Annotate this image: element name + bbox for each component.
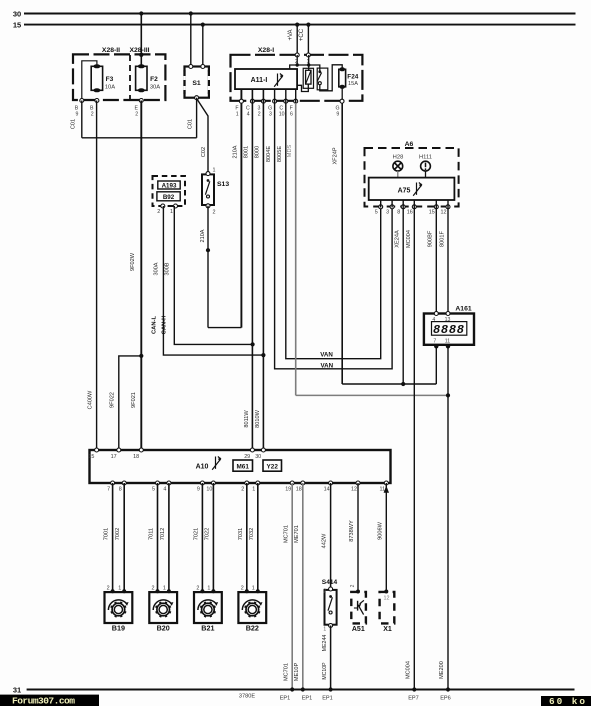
pin bump A75 16 — [412, 205, 416, 209]
wire S414 pin1 to ground EP1 — [330, 626, 332, 690]
wire XF24P horizontal to A161 pin7 — [342, 383, 436, 385]
connector box X28-I — [231, 55, 363, 101]
pin bump A10 bottom 9 — [200, 481, 204, 485]
pin bump X28-I F1 — [239, 99, 243, 103]
svg-text:1: 1 — [170, 209, 173, 215]
unit A6 dashed box — [365, 148, 459, 207]
wire 9F02W fuse F2 E2 down — [140, 101, 142, 356]
wire rail30 to S1 pin left — [190, 14, 192, 67]
svg-text:15: 15 — [13, 21, 21, 30]
svg-text:9F02W: 9F02W — [130, 252, 136, 271]
svg-text:A6: A6 — [405, 141, 414, 148]
wire 7021 A10 to B21 pin2 — [201, 483, 203, 591]
wire 8000 X28-I 32 to A10 pin30 — [262, 89, 264, 450]
svg-text:9F022: 9F022 — [109, 392, 115, 408]
pin bump B9 — [80, 99, 84, 103]
svg-text:X28-II: X28-II — [102, 47, 120, 54]
pin bump A10 bottom 12 — [356, 481, 360, 485]
svg-text:12: 12 — [384, 595, 390, 601]
wire 7002 A10 to B19 pin1 — [123, 483, 125, 591]
svg-text:30: 30 — [255, 454, 261, 460]
wire relay coil return to A11-I — [297, 84, 308, 91]
wire A75 pin5 stub — [380, 200, 382, 208]
power rail 30 wire — [24, 13, 576, 15]
svg-text:XE24A: XE24A — [395, 230, 401, 248]
unit M61 box — [233, 460, 253, 471]
svg-text:14: 14 — [324, 487, 330, 493]
pin bump X28-I C10 — [284, 99, 288, 103]
wire S13 pin2 down — [207, 206, 209, 328]
svg-text:2: 2 — [241, 487, 244, 493]
svg-text:7022: 7022 — [204, 528, 210, 540]
svg-text:VAN: VAN — [320, 352, 333, 359]
pin bump S13 pin2 — [206, 204, 210, 208]
pin bump B20 pin1 — [167, 589, 171, 593]
svg-text:29: 29 — [244, 454, 250, 460]
svg-text:9: 9 — [336, 112, 339, 118]
svg-text:10: 10 — [206, 487, 212, 493]
wire XE24A A75 pin8 down — [402, 200, 404, 384]
pin bump X28-I C4 — [250, 99, 254, 103]
svg-text:300B: 300B — [164, 262, 170, 275]
svg-text:210A: 210A — [232, 145, 238, 158]
pin bump A75 5 — [379, 205, 383, 209]
ground rail 31 wire — [27, 689, 575, 691]
wire H111 stem — [425, 171, 427, 178]
wire CAN-H from A193 pin1 — [174, 206, 252, 344]
wire pin2 drop — [296, 55, 298, 65]
pin bump B20 pin2 — [156, 589, 160, 593]
pin bump A10 top 18 — [139, 448, 143, 452]
pin bump A10 top 17 — [117, 448, 121, 452]
svg-text:210A: 210A — [200, 229, 206, 242]
wire MDS X28-I F6 down — [295, 103, 297, 395]
wire C400W fuse F3 B2 to A10 pin15 — [96, 101, 98, 451]
svg-text:1: 1 — [236, 112, 239, 118]
pin bump A10 bottom 18 — [301, 481, 305, 485]
svg-text:12: 12 — [441, 210, 447, 216]
pin bump A10 bottom 19 — [290, 481, 294, 485]
svg-text:X28-III: X28-III — [129, 47, 149, 54]
svg-text:ME244: ME244 — [322, 635, 328, 652]
ground dot EP1 ME10P — [301, 687, 305, 691]
svg-text:5: 5 — [152, 487, 155, 493]
power rail 15 wire — [24, 24, 576, 26]
svg-text:16: 16 — [407, 210, 413, 216]
arrow on 9006W wire at pin 11 — [384, 486, 389, 493]
pin bump A10 bottom 7 — [111, 481, 115, 485]
svg-text:CAN-H: CAN-H — [162, 316, 168, 335]
svg-text:8001F: 8001F — [439, 230, 445, 246]
switch S414 contact — [329, 595, 332, 598]
pin bump A10 bottom 5 — [156, 481, 160, 485]
svg-text:18: 18 — [133, 454, 139, 460]
sensor B19 box — [105, 592, 133, 623]
ground dot EP6 — [446, 687, 450, 691]
wire 9001F A75 pin15 to A161 pin4 — [435, 200, 437, 314]
junction rail30/F2 feed — [139, 11, 143, 15]
svg-text:2: 2 — [91, 112, 94, 118]
wire pin B9 down to C01 bus — [81, 101, 83, 138]
pin bump A10 bottom 14 — [329, 481, 333, 485]
svg-text:A75: A75 — [398, 188, 411, 195]
pin bump A10 bottom 1 — [256, 481, 260, 485]
svg-text:1: 1 — [252, 586, 255, 592]
ground dot EP1 MC701 — [290, 687, 294, 691]
symbol A11-I arrow — [277, 74, 279, 86]
junction pin1 on relay node — [307, 63, 310, 66]
pin bump X28-I G3 — [273, 99, 277, 103]
sensor B22 gear symbol — [242, 600, 261, 610]
wire CAN-L from A193 pin2 — [163, 206, 263, 355]
sensor B20 gear symbol — [153, 600, 172, 610]
ground dot EP1 MC10P — [329, 687, 333, 691]
junction XF24P/XE24A — [401, 382, 405, 386]
svg-text:15A: 15A — [348, 81, 358, 87]
control unit A10 box — [90, 450, 391, 483]
wire 210A up to X28-I pin F1 — [240, 89, 242, 328]
svg-text:F24: F24 — [347, 74, 358, 81]
wire 8738WY A10 pin12 to A51 — [357, 483, 359, 592]
svg-text:2: 2 — [213, 210, 216, 216]
pin bump X28-I pin2 top — [295, 53, 299, 57]
pin bump A10 bottom 11 — [384, 481, 388, 485]
pin bump A193 pin2 — [161, 204, 165, 208]
svg-text:9006W: 9006W — [377, 521, 383, 539]
svg-text:C01: C01 — [71, 119, 77, 129]
svg-text:A11-I: A11-I — [251, 77, 268, 84]
wire MDS stub from A11-I — [295, 89, 297, 103]
svg-text:1: 1 — [323, 627, 326, 633]
wire 7012 A10 to B20 pin1 — [168, 483, 170, 591]
svg-text:15: 15 — [88, 454, 94, 460]
wire H28 stem — [397, 171, 399, 178]
pin bump X28-I G9 — [340, 99, 344, 103]
svg-text:2: 2 — [196, 586, 199, 592]
svg-text:A51: A51 — [352, 626, 365, 633]
pin bump A51 pin2 — [356, 590, 360, 594]
svg-text:M61: M61 — [236, 464, 249, 471]
svg-text:XF24P: XF24P — [333, 147, 339, 164]
svg-text:8004E: 8004E — [266, 146, 272, 162]
pin bump A161 pin13 — [446, 312, 450, 316]
wire C01 bus — [82, 137, 197, 139]
svg-text:15: 15 — [429, 210, 435, 216]
svg-text:ME701: ME701 — [294, 525, 300, 543]
svg-text:9: 9 — [76, 112, 79, 118]
junction rail15/+CC feed — [306, 23, 310, 27]
wire S1 to S13 via C02 — [197, 99, 208, 173]
svg-text:3: 3 — [386, 210, 389, 216]
svg-text:4: 4 — [247, 112, 250, 118]
pin bump A161 pin4 — [434, 312, 438, 316]
unit Y22 box — [263, 460, 282, 471]
svg-text:EP1: EP1 — [280, 696, 291, 702]
pin bump A193 pin1 — [174, 204, 178, 208]
svg-text:MC004: MC004 — [405, 661, 411, 679]
pin bump B19 pin1 — [122, 589, 126, 593]
wire 210A U-bottom — [208, 327, 241, 329]
junction rail30/S1 feed — [189, 11, 193, 15]
svg-text:EP6: EP6 — [440, 696, 451, 702]
sensor B21 box — [194, 592, 222, 623]
svg-text:1: 1 — [213, 168, 216, 174]
svg-text:7001: 7001 — [104, 528, 110, 540]
svg-text:CAN-L: CAN-L — [151, 316, 157, 334]
svg-text:EP1: EP1 — [302, 696, 313, 702]
svg-text:4: 4 — [163, 487, 166, 493]
display unit A161 box — [424, 314, 474, 345]
svg-text:MDS: MDS — [287, 145, 293, 158]
pin bump B22 pin1 — [256, 589, 260, 593]
pin bump E2 — [139, 99, 143, 103]
svg-text:8010W: 8010W — [255, 409, 261, 427]
fuse F2 — [136, 66, 147, 90]
svg-text:ME10P: ME10P — [294, 663, 300, 682]
wire ME10P A10 pin18 to ground EP1 — [302, 483, 304, 690]
svg-text:7012: 7012 — [160, 528, 166, 540]
junction rail15/+VA feed — [295, 23, 299, 27]
svg-text:MC004: MC004 — [406, 230, 412, 248]
svg-text:VAN: VAN — [320, 362, 333, 369]
wire pin1 to relay coil top — [308, 55, 310, 70]
junction pin2 on relay node — [296, 63, 299, 66]
wire 7001 A10 to B19 pin2 — [112, 483, 114, 591]
wire relay contact out to fuse F24 — [320, 65, 342, 91]
svg-text:6: 6 — [290, 112, 293, 118]
svg-text:8738WY: 8738WY — [349, 520, 355, 542]
unit A193/B92 outer box — [153, 176, 186, 206]
wire A11-I top link to relay node — [290, 65, 309, 69]
wire A161 pin11 to ground EP6 — [447, 346, 449, 689]
display A161 window — [432, 322, 467, 336]
svg-text:5: 5 — [375, 210, 378, 216]
pin bump A10 top 15 — [95, 448, 99, 452]
svg-text:B22: B22 — [246, 624, 259, 633]
svg-text:7011: 7011 — [149, 528, 155, 540]
svg-text:2: 2 — [258, 112, 261, 118]
connector A51 box — [351, 592, 366, 624]
svg-text:EP7: EP7 — [408, 696, 419, 702]
svg-text:B20: B20 — [157, 624, 170, 633]
svg-text:1: 1 — [207, 586, 210, 592]
svg-text:7002: 7002 — [115, 528, 121, 540]
svg-text:MC701: MC701 — [284, 525, 290, 543]
svg-text:18: 18 — [296, 487, 302, 493]
warning lamp H111 — [421, 161, 431, 171]
footer black box 60 ko — [541, 696, 591, 706]
wire S1 bottom to C01 bus — [196, 98, 198, 138]
wire 7031 A10 to B22 pin2 — [246, 483, 248, 591]
node connector dot on 210A wire — [206, 248, 210, 252]
pin bump B22 pin2 — [245, 589, 249, 593]
pin bump A75 3 — [390, 205, 394, 209]
svg-text:X28-I: X28-I — [258, 47, 274, 54]
wire 7011 A10 to B20 pin2 — [157, 483, 159, 591]
svg-text:MC701: MC701 — [284, 663, 290, 681]
svg-text:10A: 10A — [105, 85, 115, 91]
svg-text:3: 3 — [269, 112, 272, 118]
fuse F3 — [91, 66, 102, 90]
svg-text:Forum307.com: Forum307.com — [12, 696, 75, 706]
switch S13 box — [202, 174, 214, 205]
symbol A10 arrow — [215, 457, 217, 469]
svg-text:+CC: +CC — [299, 28, 305, 41]
unit B92 inner box — [157, 192, 180, 201]
symbol A75 arrow — [416, 183, 418, 195]
pin bump S414 pin2 — [329, 587, 333, 591]
svg-text:H111: H111 — [419, 155, 432, 161]
svg-text:8011W: 8011W — [244, 410, 250, 428]
ground dot EP7 — [412, 687, 416, 691]
svg-text:31: 31 — [13, 686, 21, 695]
junction rail15/S1 feed — [201, 23, 205, 27]
wire 8001 X28-I C4 to A10 pin29 — [251, 89, 253, 450]
junction CAN-H joins 8001 wire — [251, 342, 255, 346]
svg-text:S1: S1 — [192, 80, 201, 87]
symbol A51 phototransistor — [357, 601, 359, 611]
pin bump A10 top 29 — [250, 448, 254, 452]
svg-text:1: 1 — [118, 586, 121, 592]
svg-text:A161: A161 — [455, 306, 471, 313]
svg-text:F3: F3 — [106, 76, 114, 83]
pin bump S1 top-right — [201, 65, 205, 69]
svg-text:B21: B21 — [201, 624, 214, 633]
wire +VA rail15 to X28-I pin 2 — [296, 25, 298, 56]
pin bump B21 pin1 — [211, 589, 215, 593]
svg-text:EP1: EP1 — [322, 696, 333, 702]
wire 9006W A10 pin11 to X1 — [385, 483, 387, 592]
sensor B20 box — [149, 592, 177, 623]
svg-text:2: 2 — [323, 588, 326, 594]
svg-text:F2: F2 — [150, 76, 158, 83]
svg-text:B92: B92 — [163, 194, 175, 201]
footer black box Forum307.com — [0, 695, 99, 706]
svg-text:S414: S414 — [322, 579, 338, 586]
svg-text:7031: 7031 — [238, 528, 244, 540]
svg-text:300A: 300A — [153, 262, 159, 275]
pin bump S1 bottom — [195, 96, 199, 100]
svg-text:8888: 8888 — [433, 323, 464, 337]
wire 9F022 branch to A10 pin17 — [119, 356, 142, 450]
svg-text:C400W: C400W — [88, 390, 94, 409]
svg-text:9: 9 — [197, 487, 200, 493]
connector X1 box — [380, 592, 395, 624]
pin dot A161 pin7 bottom — [434, 344, 438, 348]
svg-text:2: 2 — [350, 584, 356, 587]
wire A75 pin3 stub — [391, 200, 393, 208]
relay K coil container — [303, 68, 313, 88]
svg-text:H28: H28 — [393, 155, 404, 161]
wire 8005E X28-I C10 to A75 pin5 — [286, 89, 381, 359]
svg-text:8001: 8001 — [244, 146, 250, 158]
wire F24 to pin G9 — [341, 88, 343, 101]
svg-text:7021: 7021 — [193, 528, 199, 540]
sensor B21 gear symbol — [198, 600, 217, 610]
wire 9F021 to A10 pin18 — [140, 356, 142, 450]
svg-text:12: 12 — [351, 487, 357, 493]
divider X28-II/X28-III — [129, 55, 131, 100]
svg-text:C02: C02 — [201, 147, 207, 157]
wire A161 pin7 to XF24P horizontal — [435, 346, 437, 384]
pin bump S414 pin1 — [329, 624, 333, 628]
svg-text:9F021: 9F021 — [131, 392, 137, 408]
svg-text:7: 7 — [107, 487, 110, 493]
fuse F24 — [339, 69, 346, 87]
svg-text:2: 2 — [241, 586, 244, 592]
svg-text:2: 2 — [157, 209, 160, 215]
unit A11-I box — [235, 69, 297, 89]
wire XF24P F24 pin G9 down — [341, 103, 343, 384]
pin bump A75 12 — [446, 205, 450, 209]
svg-text:X1: X1 — [383, 626, 392, 633]
bump X28-II top F2 entry — [139, 53, 143, 57]
wire relay contact feed from pin1 node — [309, 65, 320, 71]
junction CAN-L joins 8000 wire — [261, 353, 265, 357]
relay K contact enclosure — [317, 68, 328, 90]
pin bump X1 pin12 — [384, 590, 388, 594]
wire rail30 to fuse F2 — [140, 14, 142, 67]
svg-text:8: 8 — [119, 487, 122, 493]
pin bump A75 15 — [434, 205, 438, 209]
wire 7032 A10 to B22 pin1 — [257, 483, 259, 591]
svg-text:S13: S13 — [217, 181, 229, 188]
junction A161 pin11 / MDS wire — [446, 393, 450, 397]
svg-text:MC10P: MC10P — [322, 662, 328, 680]
wire MC701 A10 pin19 to ground EP1 — [291, 483, 293, 690]
svg-text:17: 17 — [111, 454, 117, 460]
svg-text:1: 1 — [252, 487, 255, 493]
svg-text:ME200: ME200 — [439, 661, 445, 679]
pin bump S13 pin1 — [206, 172, 210, 176]
wire MC004 A75 pin16 to ground EP7 — [413, 200, 415, 690]
pin bump S1 top-left — [189, 65, 193, 69]
connector box X28-II/X28-III — [73, 54, 165, 100]
pin bump X28-I pin1 top — [306, 53, 310, 57]
pin bump A10 bottom 4 — [167, 481, 171, 485]
relay K coil — [306, 70, 311, 84]
wire MDS horizontal to A161 pin11 wire — [296, 394, 448, 396]
junction 9F02W split — [139, 354, 143, 358]
sensor B22 box — [238, 592, 266, 623]
svg-text:B19: B19 — [112, 624, 125, 633]
svg-text:A10: A10 — [196, 464, 209, 471]
pin dot A161 pin11 bottom — [446, 344, 450, 348]
svg-text:3780E: 3780E — [239, 694, 255, 700]
svg-text:7032: 7032 — [249, 528, 255, 540]
pin bump A10 top 30 — [261, 448, 265, 452]
wire +CC rail15 to X28-I pin 1 — [307, 25, 309, 56]
svg-text:30: 30 — [13, 10, 21, 19]
svg-text:11: 11 — [445, 338, 450, 344]
switch unit S1 box — [185, 67, 209, 98]
wire 8001F A75 pin12 to A161 pin13 — [447, 200, 449, 314]
pin bump A10 bottom 10 — [211, 481, 215, 485]
svg-text:7: 7 — [433, 338, 436, 344]
pin bump B21 pin2 — [200, 589, 204, 593]
svg-text:2: 2 — [135, 112, 138, 118]
pin bump A75 8 — [401, 205, 405, 209]
switch S13 contact — [207, 179, 210, 182]
svg-text:8005E: 8005E — [277, 146, 283, 162]
svg-text:C01: C01 — [188, 119, 194, 129]
svg-text:2: 2 — [107, 586, 110, 592]
wire 442W A10 pin14 to S414 — [330, 483, 332, 588]
relay K contact — [318, 70, 321, 73]
wire fuse F3 top loop to pin B9 — [82, 61, 97, 100]
switch S414 box — [325, 590, 337, 625]
wire rail15 to S1 pin right — [202, 25, 204, 67]
